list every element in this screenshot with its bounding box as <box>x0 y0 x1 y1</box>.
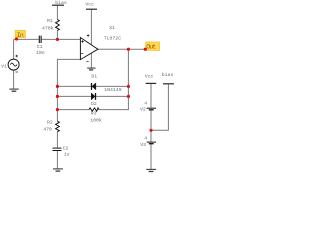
svg-text:V3: V3 <box>140 142 146 148</box>
svg-text:R2: R2 <box>47 119 53 125</box>
svg-text:D1: D1 <box>91 74 97 80</box>
svg-text:C2: C2 <box>63 146 69 152</box>
svg-text:Vcc: Vcc <box>85 2 94 8</box>
svg-text:D2: D2 <box>91 101 97 107</box>
svg-text:R1: R1 <box>47 18 53 24</box>
svg-text:bias: bias <box>162 72 174 78</box>
svg-text:4: 4 <box>144 136 147 142</box>
svg-text:Out: Out <box>146 43 156 50</box>
svg-text:470: 470 <box>43 126 52 132</box>
svg-text:X1: X1 <box>109 25 115 31</box>
svg-text:bias: bias <box>55 0 67 6</box>
svg-text:V1: V1 <box>1 63 7 69</box>
svg-text:In: In <box>17 32 24 39</box>
svg-text:1N4149: 1N4149 <box>104 87 121 93</box>
svg-text:V2: V2 <box>140 106 146 112</box>
svg-text:C1: C1 <box>37 44 43 50</box>
svg-text:4: 4 <box>144 100 147 106</box>
svg-text:1u: 1u <box>64 152 70 158</box>
svg-text:Vcc: Vcc <box>145 73 154 79</box>
svg-text:TL072C: TL072C <box>104 35 121 41</box>
svg-text:100k: 100k <box>90 118 102 124</box>
svg-text:10n: 10n <box>36 50 45 56</box>
svg-text:470k: 470k <box>42 25 54 31</box>
svg-text:R3: R3 <box>91 111 97 117</box>
